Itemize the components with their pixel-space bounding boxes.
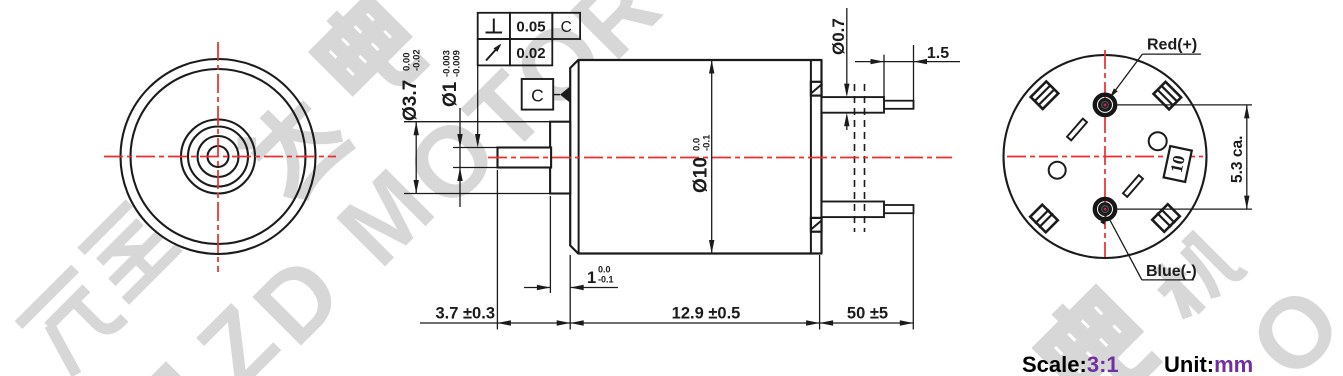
terminal eyelet top (1095, 95, 1115, 115)
bushing circle (198, 136, 239, 177)
rear case circle (1004, 55, 1207, 258)
watermark char zhi (78, 200, 179, 301)
svg-text:0.02: 0.02 (516, 45, 545, 62)
5.3 ca. label (1229, 136, 1246, 183)
dia 0.7 leader with arrows (846, 8, 848, 94)
50 dimension arrows (820, 320, 834, 325)
perpendicularity symbol (493, 19, 495, 33)
watermark char ji right (1146, 225, 1245, 324)
watermark char dian top (307, 0, 425, 109)
svg-text:-0.02: -0.02 (412, 49, 423, 71)
bottom terminal thick bar (822, 202, 885, 218)
slot lower right (1123, 175, 1143, 197)
datum triangle on body face (553, 94, 560, 96)
svg-text:C: C (561, 19, 572, 36)
middle view red centerline (488, 157, 952, 159)
left view vertical centerline (217, 42, 219, 272)
Red(+) leader (1112, 54, 1143, 95)
crimp tab upper right (1154, 82, 1182, 110)
outer case circle (121, 59, 316, 254)
svg-text:3.7 ±0.3: 3.7 ±0.3 (435, 305, 495, 323)
dia 10 label with tolerance (691, 134, 713, 193)
watermark char da in left circle (234, 84, 355, 205)
vent hole right (1149, 132, 1167, 150)
5.3 dimension line (1246, 105, 1248, 209)
dia 1 dimension line (459, 108, 461, 207)
right top brush tab (811, 82, 822, 96)
watermark char dian right (1030, 282, 1157, 376)
svg-text:Blue(-): Blue(-) (1146, 263, 1197, 280)
extension line from top eyelet (1116, 104, 1252, 106)
svg-text:Ø1: Ø1 (440, 81, 461, 107)
svg-text:0.05: 0.05 (516, 19, 545, 36)
body left seam line (578, 60, 580, 254)
svg-text:1: 1 (587, 269, 596, 287)
svg-text:Ø0.7: Ø0.7 (829, 18, 848, 55)
extension line body right (819, 255, 821, 330)
feature control frame runout 0.02 (478, 39, 510, 65)
12.9 dimension arrows (570, 320, 584, 325)
svg-text:12.9 ±0.5: 12.9 ±0.5 (672, 305, 741, 323)
dia 3.7 dimension line (415, 122, 417, 194)
shaft (498, 148, 552, 168)
dia 0.7 label (829, 18, 848, 55)
crimp tab lower right (1151, 203, 1181, 233)
motor body outline (570, 60, 821, 254)
svg-text:1.5: 1.5 (927, 45, 949, 62)
feature control frame perpendicularity 0.05 C (478, 13, 510, 39)
svg-text:-0.1: -0.1 (702, 134, 713, 151)
svg-text:Ø3.7: Ø3.7 (400, 80, 421, 121)
svg-text:Ø10: Ø10 (691, 157, 712, 193)
1 0/-0.1 collar dimension (549, 196, 551, 293)
slot upper left (1067, 119, 1087, 141)
label 10 box (1164, 146, 1192, 182)
svg-text:C: C (531, 86, 544, 106)
leader from frames to shaft (477, 65, 479, 144)
dia 1 label with tolerance (440, 50, 463, 107)
right bottom brush tab (811, 218, 822, 232)
extension lines for dia 1 shaft (453, 147, 499, 149)
dia 10 dimension line inside body (711, 60, 713, 254)
dia 3.7 label with tolerance (400, 49, 423, 121)
extension line terminal tip (912, 214, 914, 330)
svg-text:-0.1: -0.1 (598, 275, 614, 285)
right view red centerlines (1007, 156, 1203, 158)
inner case circle (131, 69, 306, 244)
terminal eyelet bottom (1095, 199, 1115, 219)
watermark char wan (19, 269, 129, 376)
collar bushing (550, 122, 570, 194)
svg-text:0.0: 0.0 (598, 265, 611, 275)
bottom dimension line (420, 322, 497, 324)
svg-text:-0.009: -0.009 (452, 50, 463, 77)
svg-text:5.3 ca.: 5.3 ca. (1229, 136, 1246, 183)
runout arrow symbol (486, 46, 500, 61)
bottom terminal pin thin tip (884, 205, 914, 213)
wire break dashed lines (854, 84, 856, 232)
3.7 dimension arrows (497, 320, 511, 325)
top terminal thick bar (822, 97, 885, 113)
svg-text:Red(+): Red(+) (1147, 37, 1197, 54)
datum C box (522, 79, 554, 110)
left view horizontal centerline (104, 156, 336, 158)
crimp tab upper left (1031, 81, 1059, 109)
svg-text:Unit:mm: Unit:mm (1164, 352, 1253, 376)
top terminal pin thin tip (884, 101, 914, 109)
svg-text:Scale:3:1: Scale:3:1 (1022, 352, 1119, 376)
shaft circle (208, 146, 229, 167)
extension line body left (569, 255, 571, 330)
Blue(-) leader (1108, 217, 1142, 280)
hub circle 2 (188, 127, 248, 187)
crimp tab lower left (1029, 204, 1059, 234)
body right seam line (810, 60, 812, 254)
vent hole left (1049, 162, 1066, 179)
1.5 dimension (883, 55, 885, 97)
extension lines for dia 3.7 collar (404, 121, 550, 123)
extension line shaft tip (496, 170, 498, 330)
extension line from bottom eyelet (1116, 208, 1252, 210)
svg-text:50 ±5: 50 ±5 (847, 305, 888, 323)
hub circle 1 (181, 120, 255, 194)
